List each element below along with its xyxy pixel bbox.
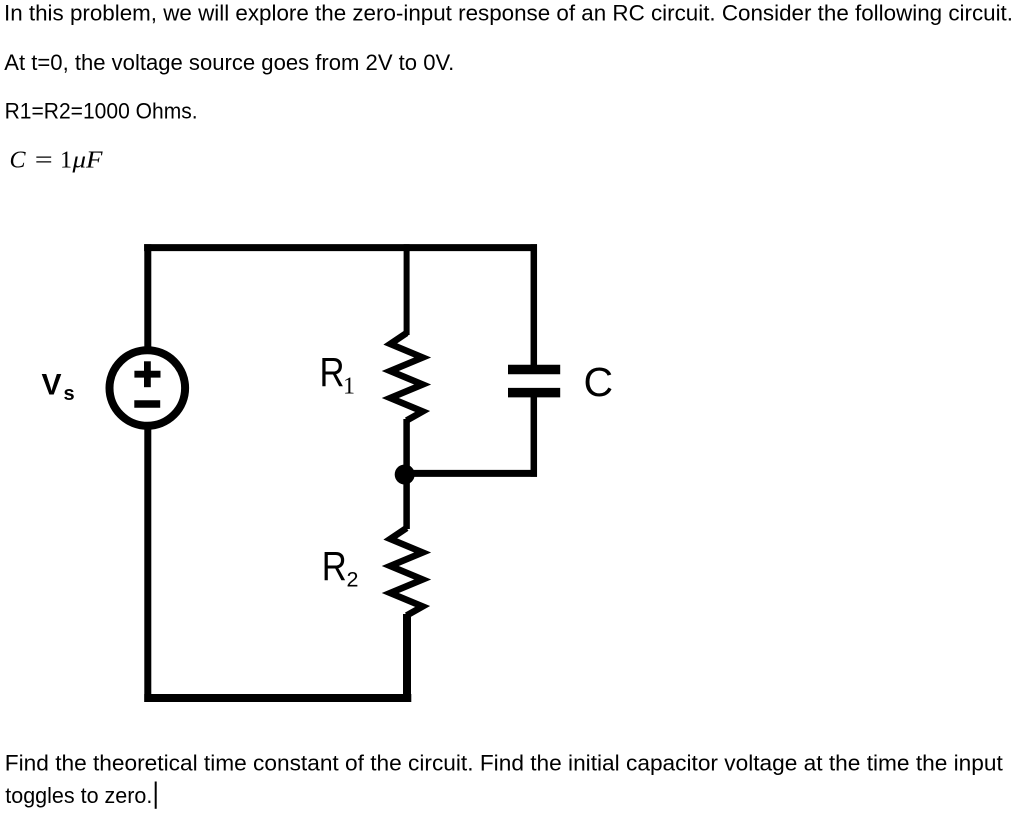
label R1: [320, 349, 356, 399]
svg-text:R: R: [322, 543, 347, 589]
svg-text:R1=R2=1000 Ohms.: R1=R2=1000 Ohms.: [5, 99, 198, 124]
label Vs: [42, 368, 75, 405]
text cursor: [155, 782, 157, 809]
resistor R2 zigzag: [390, 528, 422, 616]
svg-text:toggles to zero.: toggles to zero.: [5, 783, 152, 808]
svg-text:1: 1: [60, 148, 72, 174]
minus sign inside source: [134, 400, 160, 407]
wire: left vertical upper (top wire to source +): [144, 244, 151, 349]
wire: right vertical lower (capacitor to node wire): [531, 396, 538, 477]
label R2: [322, 543, 359, 592]
equation C = 1uF: [10, 148, 103, 174]
plus sign inside source: [134, 361, 160, 387]
capacitor C top plate: [508, 365, 560, 375]
svg-text:Find the theoretical time cons: Find the theoretical time constant of th…: [5, 751, 1004, 776]
svg-text:C: C: [10, 148, 27, 174]
wire: left vertical lower (source - to bottom wire): [144, 427, 151, 702]
svg-text:=: =: [35, 148, 53, 174]
wire: R1 bottom lead to node: [403, 419, 410, 476]
svg-text:V: V: [42, 368, 62, 401]
svg-text:At t=0, the voltage source goe: At t=0, the voltage source goes from 2V …: [4, 50, 454, 75]
wire: middle vertical top lead (top wire to R1): [404, 244, 410, 335]
capacitor C bottom plate: [508, 388, 560, 398]
wire: node horizontal to capacitor branch: [404, 470, 537, 477]
wire: node to R2 top lead: [403, 474, 410, 529]
svg-text:μF: μF: [71, 148, 102, 174]
svg-text:C: C: [584, 359, 614, 405]
svg-text:1: 1: [343, 373, 355, 399]
svg-text:R: R: [320, 349, 345, 395]
voltage source Vs circle: [110, 350, 186, 426]
wire: top horizontal: [144, 244, 537, 251]
svg-text:In this problem, we will explo: In this problem, we will explore the zer…: [4, 1, 1013, 26]
wire: bottom horizontal: [144, 694, 411, 702]
node junction dot: [395, 465, 415, 485]
resistor R1 zigzag: [390, 333, 422, 421]
svg-text:s: s: [64, 383, 75, 405]
wire: right vertical upper (top wire to capacitor): [531, 244, 538, 366]
wire: R2 bottom lead to bottom wire: [403, 614, 411, 702]
svg-text:2: 2: [347, 568, 359, 592]
